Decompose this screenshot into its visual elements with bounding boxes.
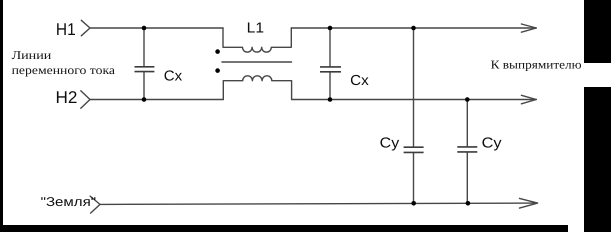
wire H2 rail left segment: [90, 99, 223, 101]
junction ground rail at Cy1: [411, 201, 416, 206]
inductor L1 top winding: [223, 28, 291, 52]
junction H2 rail at Cx1: [142, 97, 147, 102]
arrowhead top rail output: [521, 24, 536, 32]
svg-text:Cx: Cx: [350, 73, 369, 89]
capacitor C1 Cx left plates: [135, 67, 155, 72]
junction top rail at Cy1 branch: [411, 26, 416, 31]
capacitor C2 Cx right plates: [320, 67, 341, 72]
capacitor C3 Cy left plates: [404, 147, 424, 152]
capacitor C2 Cx right lead top: [329, 28, 331, 66]
svg-text:H2: H2: [56, 88, 78, 107]
arrowhead H2 rail output: [521, 95, 536, 104]
wire vertical Cy2 branch upper: [466, 100, 468, 147]
junction H2 rail at Cy2 branch: [465, 97, 470, 102]
port ground: [90, 196, 100, 213]
wire vertical Cy1 branch upper: [413, 28, 415, 146]
capacitor C1 Cx left lead top: [143, 28, 145, 66]
svg-text:Cx: Cx: [164, 69, 183, 85]
capacitor C2 Cx right lead bottom: [329, 73, 331, 100]
arrowhead ground output: [520, 198, 538, 208]
capacitor C4 Cy right plates: [457, 147, 477, 152]
wire top rail left segment: [90, 27, 223, 29]
svg-text:"Земля": "Земля": [41, 194, 97, 209]
wire vertical Cy2 branch lower: [466, 153, 468, 204]
junction ground rail at Cy2: [466, 201, 471, 206]
junction top rail at Cx1: [142, 26, 147, 31]
inductor L1 bottom winding: [223, 76, 291, 100]
svg-text:К выпрямителю: К выпрямителю: [491, 57, 582, 71]
port H1: [81, 20, 90, 36]
wire top rail right segment: [291, 27, 536, 29]
svg-text:Cy: Cy: [482, 136, 503, 152]
port H2: [81, 91, 90, 109]
svg-text:Cy: Cy: [380, 136, 400, 152]
inductor L1 core: [222, 61, 292, 63]
svg-text:переменного тока: переменного тока: [12, 63, 116, 77]
svg-text:L1: L1: [247, 21, 264, 37]
wire H2 rail right segment: [292, 99, 537, 101]
capacitor C1 Cx left lead bottom: [143, 72, 145, 99]
wire vertical Cy1 branch lower: [413, 153, 415, 203]
junction top rail at Cx2: [328, 26, 333, 31]
polarity dot L1 bottom: [215, 68, 220, 73]
wire ground rail: [100, 203, 537, 204]
svg-text:H1: H1: [56, 20, 76, 39]
junction H2 rail at Cx2: [328, 97, 333, 102]
polarity dot L1 top: [215, 49, 220, 54]
svg-text:Линии: Линии: [12, 48, 52, 62]
